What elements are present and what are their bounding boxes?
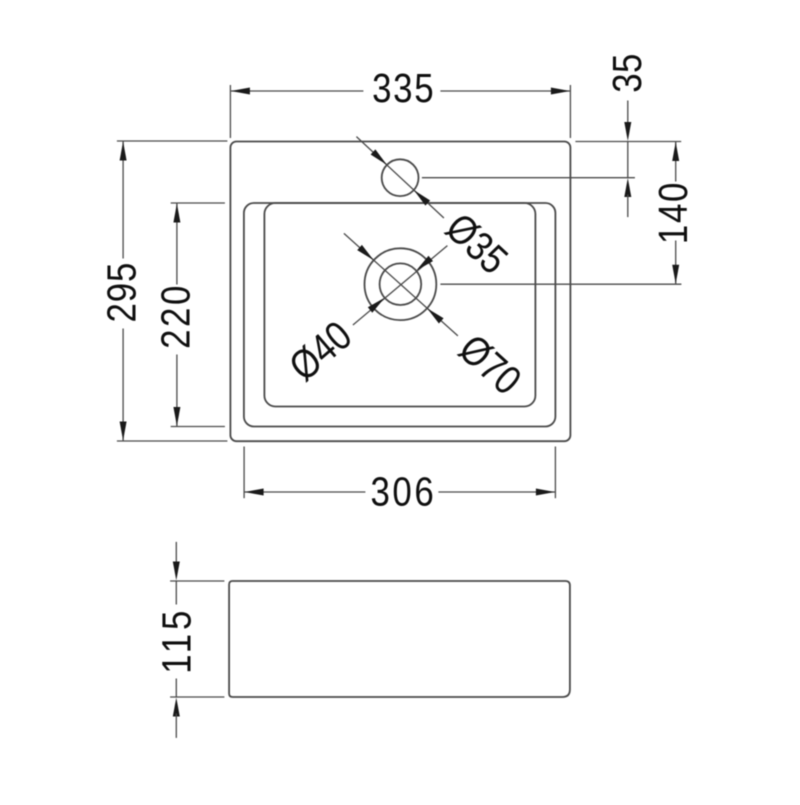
svg-text:Ø35: Ø35 — [437, 205, 516, 283]
svg-text:115: 115 — [155, 607, 200, 674]
svg-text:220: 220 — [154, 283, 199, 349]
svg-text:335: 335 — [372, 66, 435, 111]
svg-text:Ø40: Ø40 — [281, 313, 360, 390]
svg-text:140: 140 — [651, 181, 696, 244]
svg-text:35: 35 — [605, 53, 650, 93]
svg-text:295: 295 — [100, 262, 145, 323]
svg-text:Ø70: Ø70 — [450, 326, 529, 404]
svg-text:306: 306 — [371, 470, 437, 515]
